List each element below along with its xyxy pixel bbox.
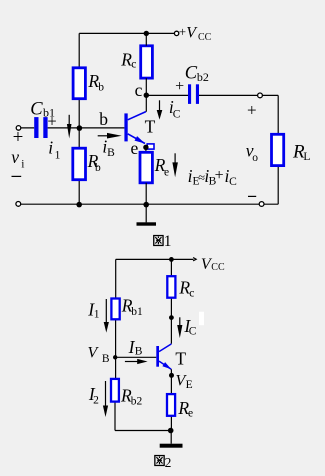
- svg-text:b: b: [99, 109, 108, 129]
- svg-text:+: +: [247, 101, 257, 120]
- svg-text:T: T: [145, 116, 156, 136]
- svg-text:C: C: [173, 109, 181, 121]
- svg-text:v: v: [11, 147, 19, 167]
- svg-text:e: e: [131, 138, 139, 158]
- svg-text:B: B: [107, 147, 115, 159]
- svg-text:+: +: [13, 127, 24, 148]
- svg-text:1: 1: [164, 233, 172, 250]
- svg-text:b2: b2: [197, 70, 209, 84]
- svg-text:b1: b1: [131, 306, 143, 318]
- svg-text:c: c: [131, 58, 136, 70]
- svg-text:+: +: [47, 111, 56, 130]
- svg-text:L: L: [303, 151, 310, 163]
- svg-text:c: c: [135, 80, 143, 100]
- svg-text:b2: b2: [131, 396, 143, 408]
- svg-text:1: 1: [94, 309, 100, 321]
- svg-text:C: C: [189, 326, 197, 338]
- svg-text:T: T: [175, 348, 186, 368]
- svg-text:i: i: [48, 138, 53, 158]
- svg-text:C: C: [185, 63, 198, 83]
- svg-text:C: C: [30, 99, 43, 119]
- svg-text:+: +: [175, 78, 184, 95]
- svg-text:1: 1: [55, 150, 61, 162]
- svg-text:i: i: [21, 158, 24, 170]
- svg-text:o: o: [252, 152, 258, 164]
- svg-text:B: B: [135, 345, 143, 357]
- svg-text:e: e: [188, 408, 193, 420]
- svg-text:C: C: [229, 176, 237, 188]
- svg-text:b: b: [98, 82, 104, 94]
- svg-text:+: +: [215, 167, 224, 184]
- svg-text:c: c: [189, 288, 194, 300]
- svg-text:e: e: [164, 167, 169, 179]
- svg-text:2: 2: [165, 455, 172, 470]
- svg-text:2: 2: [93, 395, 99, 407]
- svg-text:CC: CC: [198, 32, 212, 43]
- svg-text:+: +: [179, 24, 186, 39]
- svg-text:CC: CC: [211, 262, 225, 273]
- svg-text:b: b: [95, 162, 101, 174]
- svg-text:B: B: [102, 353, 110, 365]
- svg-text:E: E: [186, 379, 193, 391]
